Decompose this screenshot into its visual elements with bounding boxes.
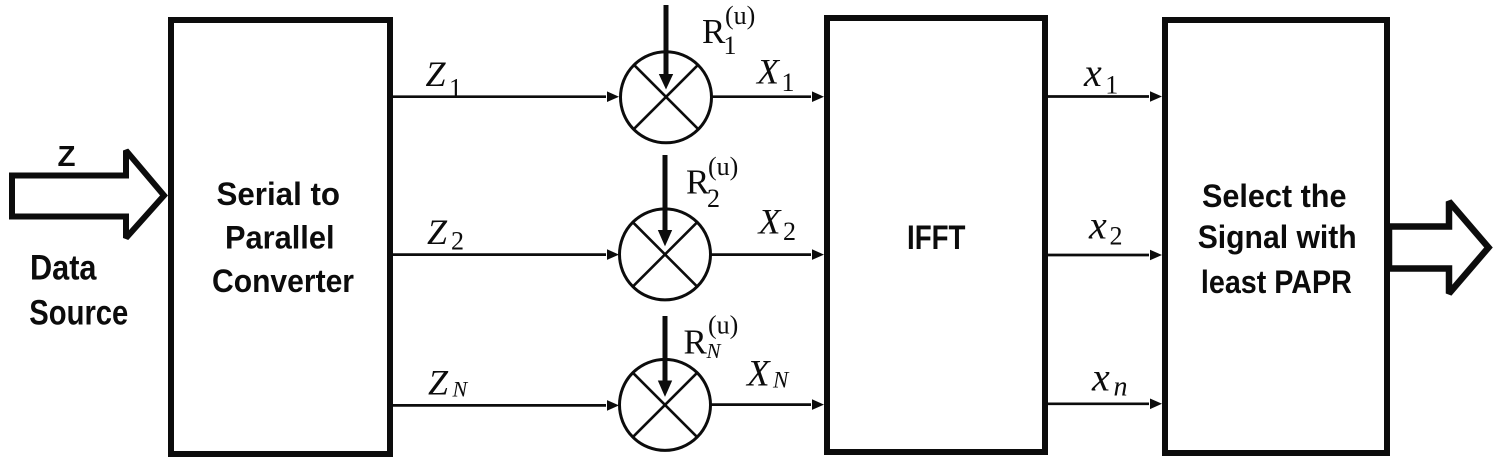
label X2 [757, 202, 797, 246]
svg-text:Z: Z [428, 363, 449, 403]
block: Select the Signal with least PAPR [1165, 20, 1387, 453]
svg-text:1: 1 [449, 74, 462, 103]
phase arrow R2 [658, 155, 672, 246]
svg-text:2: 2 [451, 227, 464, 256]
block: IFFT [827, 18, 1045, 452]
svg-text:Parallel: Parallel [225, 220, 335, 256]
svg-text:1: 1 [724, 31, 737, 60]
svg-text:X: X [745, 354, 771, 395]
multiplier M1 [621, 52, 712, 143]
svg-text:x: x [1083, 50, 1102, 95]
svg-text:Converter: Converter [212, 263, 354, 299]
svg-text:(u): (u) [725, 1, 755, 30]
phase arrow R1 [659, 5, 673, 90]
svg-text:Source: Source [29, 292, 128, 332]
svg-text:2: 2 [783, 217, 796, 246]
wire Z1 [393, 91, 619, 102]
block: Serial to Parallel Converter [171, 20, 390, 454]
label x2 [1088, 203, 1123, 251]
svg-text:X: X [757, 202, 783, 242]
svg-text:least PAPR: least PAPR [1201, 264, 1352, 300]
wire XN [711, 399, 824, 410]
svg-text:(u): (u) [708, 311, 738, 340]
wire X1 [712, 91, 824, 102]
svg-text:Data: Data [30, 248, 97, 288]
label Z1 [426, 54, 463, 103]
label X1 [755, 52, 795, 98]
svg-text:N: N [452, 377, 469, 402]
svg-text:2: 2 [1110, 222, 1123, 251]
label ZN [428, 363, 469, 403]
svg-text:Z: Z [426, 54, 447, 94]
svg-text:R: R [702, 12, 726, 51]
output block arrow [1389, 202, 1489, 294]
svg-text:(u): (u) [708, 152, 738, 181]
label Data Source [29, 248, 128, 333]
wire x2 [1048, 250, 1162, 261]
label XN [745, 354, 790, 395]
svg-text:R: R [684, 323, 708, 362]
svg-text:1: 1 [1105, 71, 1118, 100]
input block arrow (Data Source) [12, 151, 164, 239]
svg-text:Z: Z [58, 141, 76, 173]
wire x1 [1048, 91, 1162, 102]
svg-text:1: 1 [782, 68, 795, 97]
label xn [1091, 354, 1128, 402]
svg-text:2: 2 [707, 184, 720, 213]
svg-text:X: X [755, 52, 781, 92]
svg-text:x: x [1091, 354, 1110, 399]
svg-text:Signal with: Signal with [1198, 219, 1357, 255]
svg-text:N: N [706, 339, 722, 363]
svg-text:Select the: Select the [1202, 178, 1347, 214]
svg-text:N: N [772, 368, 790, 393]
svg-text:Serial to: Serial to [217, 176, 341, 212]
label RN(u) [684, 311, 739, 364]
svg-text:Z: Z [427, 212, 448, 252]
wire Z2 [393, 249, 619, 260]
wire ZN [393, 400, 619, 411]
phase arrow RN [658, 316, 672, 397]
wire X2 [711, 249, 824, 260]
multiplier MN [620, 359, 711, 450]
label R2(u) [686, 152, 738, 213]
label Z2 [427, 212, 464, 255]
multiplier M2 [620, 209, 711, 300]
svg-text:IFFT: IFFT [907, 219, 966, 257]
svg-text:n: n [1114, 372, 1128, 403]
svg-text:x: x [1088, 203, 1107, 248]
wire xn [1048, 399, 1162, 410]
label R1(u) [702, 1, 755, 60]
label x1 [1083, 50, 1118, 100]
